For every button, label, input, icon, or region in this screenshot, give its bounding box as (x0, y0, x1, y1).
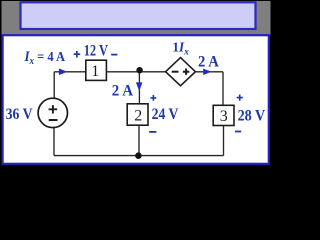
polarity plus before 12V (74, 51, 81, 58)
voltage source 36V circle (38, 98, 67, 127)
wire box3 bottom to bottom rail (223, 126, 225, 156)
voltage source plus sign (49, 105, 58, 113)
svg-text:2 A: 2 A (112, 82, 134, 99)
wire source bottom to bottom rail (53, 128, 55, 156)
voltage source minus sign (49, 119, 58, 121)
wire left vertical (corner to source top) (53, 72, 55, 99)
resistor box 2 (127, 104, 148, 125)
junction node bottom (dot) (135, 152, 142, 159)
outer black frame (0, 0, 272, 168)
svg-text:3: 3 (220, 108, 228, 125)
wire right vertical (corner to box3 top) (222, 72, 224, 106)
svg-text:2 A: 2 A (198, 54, 220, 71)
polarity plus box2 (151, 95, 157, 101)
wire junction to box2 top (138, 72, 140, 104)
dependent source diamond 1Ix (166, 58, 196, 86)
content panel blue border (3, 35, 269, 164)
wire bottom rail (54, 155, 224, 157)
svg-text:28 V: 28 V (238, 107, 266, 124)
polarity minus box3 (235, 131, 241, 133)
svg-text:2: 2 (134, 108, 142, 125)
svg-text:24 V: 24 V (152, 106, 180, 123)
wire diamond to top-right corner (195, 71, 223, 73)
diamond plus sign (183, 69, 189, 75)
svg-text:1: 1 (91, 63, 99, 80)
polarity minus after 12V (111, 54, 117, 56)
polarity plus box3 (237, 95, 243, 101)
wire top-left horizontal (54, 71, 86, 73)
title lavender box (21, 2, 256, 29)
resistor box 1 (86, 60, 107, 80)
current arrow 2A right (203, 69, 211, 75)
resistor box 3 (213, 105, 234, 125)
svg-text:36 V: 36 V (6, 106, 34, 123)
polarity minus box2 (149, 131, 156, 133)
wire box2 bottom to bottom rail (138, 125, 140, 155)
wire box1 to diamond (106, 71, 165, 73)
junction node top (dot) (136, 67, 142, 73)
current arrow Ix (right) (59, 69, 67, 76)
diamond minus sign (172, 71, 179, 73)
svg-text:12 V: 12 V (84, 42, 109, 59)
gray header bar (2, 1, 271, 35)
current arrow 2A down (136, 82, 143, 91)
